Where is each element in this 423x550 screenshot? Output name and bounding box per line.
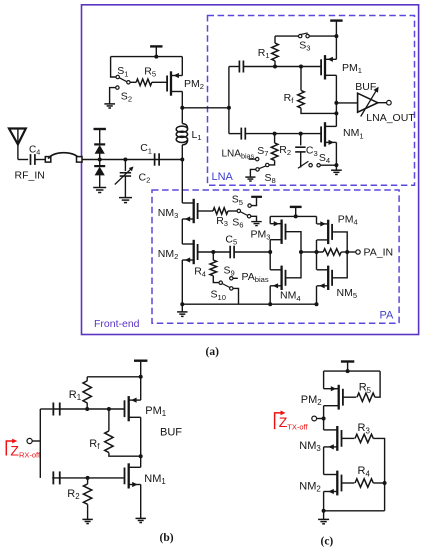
- resistor PA feedback: [323, 249, 341, 256]
- node X top: [180, 106, 184, 110]
- Z_RX-off symbol: [6, 439, 41, 460]
- VDD (c): [341, 362, 354, 372]
- port PA_IN: [356, 247, 393, 259]
- svg-text:(b): (b): [160, 532, 174, 544]
- wire port (b): [32, 440, 40, 442]
- capacitor C4: [29, 144, 40, 165]
- LNA label: [212, 171, 234, 183]
- transistor PM1: [321, 55, 362, 79]
- resistor R1: [258, 36, 279, 66]
- label (b): [160, 532, 174, 544]
- wire PM2 source (c): [323, 371, 325, 389]
- ground R2 (b): [82, 519, 92, 523]
- capacitor LNA lower: [241, 128, 245, 140]
- node R1 bottom: [273, 65, 277, 69]
- PA label: [380, 310, 395, 322]
- node R4 top: [211, 250, 215, 254]
- wire to upper cap: [229, 66, 239, 68]
- VDD (b): [134, 361, 147, 377]
- wire S2 to ground: [110, 88, 116, 104]
- transistor PM3: [251, 220, 286, 244]
- wire to lower cap: [229, 133, 241, 135]
- antenna: [9, 129, 26, 160]
- capacitor C5: [225, 233, 237, 258]
- wire NM5 gate: [332, 252, 347, 278]
- wire buffer input: [336, 102, 357, 104]
- switch S6 lever: [240, 212, 248, 216]
- node NM1 ground: [334, 163, 338, 167]
- node Rf top: [299, 65, 303, 69]
- wire NM4 gate: [286, 252, 302, 278]
- transistor NM2: [158, 240, 198, 264]
- wire cap to port (b): [40, 408, 52, 410]
- wire NM5 drain: [316, 252, 318, 270]
- resistor R2: [269, 134, 291, 165]
- node ground (c): [322, 509, 326, 513]
- switch S10 lever: [222, 284, 230, 288]
- wire R3 to rail (c): [373, 438, 384, 510]
- transistor NM2 (c): [299, 471, 341, 496]
- wire S6 to ground: [251, 216, 257, 221]
- switch S5 contact: [232, 194, 252, 208]
- wire common to R5: [130, 81, 136, 83]
- node Rf bottom: [334, 111, 338, 115]
- node LNA input: [227, 106, 231, 110]
- inductor L1: [176, 108, 201, 160]
- switch S1 lever: [119, 78, 127, 82]
- wire NM1 source: [335, 142, 337, 165]
- transistor PM2: [167, 71, 204, 95]
- svg-text:BUF: BUF: [355, 81, 376, 93]
- wire PA top rail: [270, 215, 316, 217]
- bond wire: [48, 153, 79, 159]
- VDD LNA: [330, 21, 342, 36]
- resistor R2 (b): [67, 478, 92, 519]
- transistor NM1 (b): [125, 463, 166, 488]
- ground ESD: [93, 188, 106, 193]
- wire NM2 gate (c): [342, 482, 355, 484]
- wire node X down to PA: [181, 160, 183, 204]
- ground C2: [119, 198, 132, 203]
- wire PM2 drain: [181, 92, 183, 108]
- node R1 bottom (b): [85, 407, 89, 411]
- wire S9 to PAbias: [233, 277, 238, 279]
- switch common S7S8: [266, 163, 269, 166]
- switch common S9S10: [219, 281, 222, 284]
- bond pad 2: [77, 157, 83, 163]
- port Z_TX (c): [312, 416, 317, 421]
- switch S3: [299, 33, 311, 53]
- ESD diode D1: [94, 144, 105, 159]
- wire S10 to rail: [233, 288, 239, 304]
- resistor R3 (c): [355, 422, 373, 442]
- wire buffer output: [378, 102, 387, 104]
- wire PM3 drain: [269, 240, 271, 252]
- wire PM1 gate line: [243, 66, 321, 68]
- port Z_RX (b): [27, 438, 32, 443]
- wire R1 to S3: [275, 35, 299, 37]
- wire NM4 source: [269, 286, 271, 304]
- ESD diode D2: [94, 160, 105, 188]
- wire gate NM1 (b): [52, 477, 124, 479]
- wire PM4 source: [316, 216, 318, 224]
- resistor Rf (b): [89, 409, 140, 456]
- svg-text:LNA_OUT: LNA_OUT: [366, 112, 415, 124]
- wire top rail (b): [87, 376, 141, 378]
- transistor PM2 (c): [301, 385, 343, 410]
- switch S10 contact: [211, 287, 234, 302]
- wire NM1 gate line: [245, 133, 321, 135]
- wire R5 to PM2 gate: [152, 81, 167, 83]
- switch S4: [309, 152, 330, 167]
- wire S5 to VDD: [251, 198, 256, 206]
- wire mid to PM4 drain: [301, 251, 323, 253]
- wire LNA input riser: [228, 67, 230, 134]
- node R4 rail (c): [383, 481, 387, 485]
- switch common PM2: [127, 81, 130, 84]
- wire PM1 source (b): [140, 377, 142, 400]
- svg-text:RF_IN: RF_IN: [15, 170, 45, 182]
- transistor NM3: [158, 199, 198, 223]
- switch S7 contact: [256, 145, 269, 161]
- ground NM1 (b): [136, 518, 146, 522]
- resistor R1 (b): [69, 377, 92, 409]
- node PA gates: [299, 250, 303, 254]
- ground rail PA: [182, 303, 316, 305]
- wire node X to LNA: [182, 107, 229, 109]
- LNA box: [208, 16, 415, 186]
- node Rf top (b): [107, 407, 111, 411]
- node C3 top: [299, 132, 303, 136]
- wire top rail (c): [324, 370, 381, 372]
- wire NM2 source: [181, 260, 183, 304]
- capacitor lower (b): [53, 471, 59, 484]
- VDD PA: [290, 207, 302, 217]
- wire bottom rail (c): [324, 510, 385, 512]
- wire S4 to NM1 source: [320, 164, 336, 166]
- PAbias label: [242, 271, 269, 284]
- LNAbias label: [222, 148, 255, 160]
- transistor PM4: [317, 213, 358, 244]
- op-amp BUF: [355, 81, 378, 117]
- transistor NM3 (c): [299, 426, 341, 453]
- wire PM3 source: [269, 216, 271, 223]
- ground NM1: [331, 165, 342, 174]
- switch S6 contact: [232, 215, 251, 230]
- wire R5 to rail (c): [375, 371, 380, 397]
- node diode junction: [98, 158, 102, 162]
- wire NM2 source (c): [323, 492, 325, 511]
- wire S8 to ground: [250, 169, 255, 177]
- switch S1 contact: [116, 75, 119, 78]
- transistor NM5: [317, 266, 357, 301]
- VDD S5: [251, 196, 262, 198]
- node PM3 drain: [268, 250, 272, 254]
- node LNA out: [334, 101, 338, 105]
- node R2 top: [273, 132, 277, 136]
- BUF label (b): [160, 426, 182, 438]
- wire port riser (b): [39, 409, 41, 478]
- wire PM2 top rail: [111, 56, 183, 58]
- node VDD PM2: [154, 55, 158, 59]
- wire NM3 source: [181, 219, 183, 244]
- node L1 bottom: [180, 158, 184, 162]
- wire PM4 drain: [316, 240, 318, 252]
- wire PM1 drain: [335, 75, 337, 126]
- node NM4 rail: [268, 302, 272, 306]
- node VDD (b): [139, 375, 143, 379]
- ESD supply bar: [94, 129, 106, 144]
- VDD PM2: [150, 46, 162, 56]
- wire R4 to rail (c): [373, 482, 384, 484]
- node Rf bottom (b): [139, 454, 143, 458]
- node LNA VDD: [334, 34, 338, 38]
- node rail left: [180, 302, 184, 306]
- node R2 top (b): [86, 476, 90, 480]
- wire S3 to VDD node: [309, 35, 336, 37]
- wire LNAbias: [249, 158, 256, 160]
- label (c): [321, 536, 334, 548]
- wire NM1 source (b): [140, 485, 142, 519]
- capacitor LNA upper: [239, 61, 243, 73]
- ground PA main: [177, 304, 187, 316]
- svg-text:Front-end: Front-end: [94, 318, 140, 330]
- ground S6: [251, 222, 261, 226]
- transistor NM4: [270, 266, 300, 303]
- wire PM4 gate: [332, 232, 347, 252]
- wire PM3 gate: [286, 232, 302, 252]
- wire NM3 gate (c): [342, 437, 355, 439]
- svg-text:(a): (a): [206, 346, 220, 358]
- wire R4 to switch: [213, 276, 219, 283]
- wire PM2 gate (c): [343, 396, 356, 398]
- capacitor C1: [140, 142, 159, 166]
- wire antenna to C4: [18, 159, 28, 161]
- resistor R4 (c): [355, 465, 373, 487]
- port LNA_OUT: [366, 100, 415, 124]
- node VDD (c): [346, 369, 350, 373]
- node Z_TX (c): [322, 417, 326, 421]
- svg-text:LNA: LNA: [212, 171, 234, 183]
- svg-text:PA: PA: [380, 310, 395, 322]
- wire PM1 source: [335, 36, 337, 59]
- node PA_IN junction: [345, 250, 349, 254]
- S2 label: [121, 90, 132, 103]
- RF_IN label: [15, 170, 45, 182]
- wire NM4 drain: [269, 252, 271, 270]
- resistor Rf: [284, 67, 337, 114]
- transistor NM1: [321, 122, 363, 146]
- front-end label: [94, 318, 140, 330]
- svg-text:PA_IN: PA_IN: [364, 247, 394, 259]
- ground S8: [245, 177, 255, 181]
- wire Z to NM3 drain (c): [323, 419, 325, 430]
- resistor R4: [194, 252, 216, 279]
- capacitor C2 variable: [115, 160, 151, 198]
- wire NM5 source: [316, 286, 318, 304]
- wire PM2 drain (c): [323, 406, 325, 419]
- svg-text:(c): (c): [321, 536, 334, 548]
- wire NM2 gate to mid: [198, 251, 230, 253]
- wire port (c): [317, 418, 324, 420]
- wire gate PM1 (b): [52, 408, 124, 410]
- wire C4 to pad: [35, 159, 45, 161]
- ground S2: [104, 104, 115, 108]
- svg-text:BUF: BUF: [160, 426, 182, 438]
- switch S2 contact: [116, 86, 119, 89]
- capacitor C3: [295, 134, 318, 168]
- wire C5 to PM3 drain: [234, 251, 270, 253]
- resistor R5 (c): [357, 382, 375, 402]
- ground (c): [318, 511, 329, 524]
- node PM4 drain: [315, 250, 319, 254]
- switch S8 lever: [259, 166, 266, 169]
- wire NM3 source (c): [323, 447, 325, 475]
- bond pad 1: [45, 157, 51, 163]
- wire S1 riser: [111, 57, 116, 77]
- switch S8 contact: [256, 168, 276, 186]
- transistor PM1 (b): [125, 396, 167, 421]
- PA box: [152, 190, 399, 323]
- node C2 junction: [123, 158, 127, 162]
- front-end box: [82, 5, 419, 335]
- wire main RF line: [82, 159, 182, 161]
- wire PM2 source: [181, 57, 183, 76]
- wire NM3 gate: [198, 210, 213, 212]
- node VDD PA: [294, 214, 298, 218]
- node NM5 rail: [315, 302, 319, 306]
- wire R3 to switch: [228, 210, 237, 212]
- switch common S5S6: [237, 209, 240, 212]
- label (a): [206, 346, 220, 358]
- S1 label: [117, 65, 128, 78]
- switch S4 lever: [298, 161, 309, 168]
- resistor R3: [213, 208, 228, 228]
- capacitor upper (b): [53, 403, 59, 416]
- wire PM1 drain (b): [140, 417, 142, 467]
- Z_TX-off symbol: [275, 411, 309, 432]
- resistor R5: [136, 65, 156, 85]
- wire to PA_IN port: [341, 251, 356, 253]
- switch S9 contact: [224, 264, 235, 280]
